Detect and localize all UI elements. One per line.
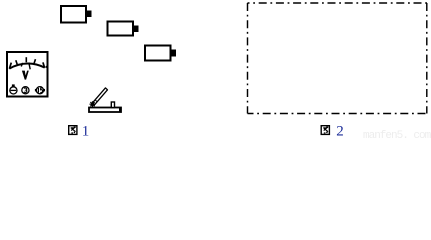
voltmeter case	[7, 52, 48, 97]
battery cell B1	[61, 6, 91, 23]
svg-text:2: 2	[336, 124, 344, 140]
knife switch S1	[89, 88, 122, 113]
terminal minus	[10, 87, 17, 94]
terminal 15 left tab	[35, 89, 36, 91]
V unit label (drawn)	[22, 71, 29, 80]
switch pivot star	[90, 101, 96, 107]
scale tick 4	[34, 59, 36, 63]
B2 positive terminal nub	[134, 26, 138, 32]
scale tick left end	[9, 63, 11, 69]
blade nib cut line	[95, 100, 97, 102]
svg-text:1: 1	[82, 124, 90, 140]
switch blade lever	[92, 88, 108, 105]
switch contact post	[111, 102, 114, 108]
switch base	[89, 108, 121, 113]
battery cell B2	[108, 22, 139, 36]
needle mark right	[29, 63, 30, 70]
dashed box right edge	[426, 3, 428, 114]
label 图 1 : hand-drawn CJK glyph	[69, 126, 77, 135]
scale tick mid	[25, 57, 27, 62]
terminal 15 digit 1 (drawn)	[37, 88, 39, 93]
switch base right cap	[119, 107, 122, 113]
dashed box top edge	[248, 2, 428, 4]
battery cell B3	[145, 46, 176, 61]
terminal 15	[36, 87, 43, 94]
terminal 3	[22, 87, 29, 94]
B3 positive terminal nub	[172, 50, 176, 56]
B1 positive terminal nub	[87, 11, 91, 17]
voltmeter V1	[7, 52, 48, 97]
terminal minus tab	[12, 85, 14, 87]
dashed box bottom edge	[248, 113, 428, 115]
scale tick right end	[43, 62, 45, 67]
terminal 3 digit (drawn)	[24, 88, 27, 92]
terminal 15 right tab	[43, 89, 44, 91]
dashed box left edge	[247, 3, 249, 114]
voltmeter scale arc	[9, 64, 44, 69]
end dot right	[46, 66, 47, 67]
dashed box (figure 2 frame)	[248, 3, 428, 114]
terminal 15 digit 5 (drawn)	[40, 88, 42, 93]
needle mark left	[21, 63, 22, 67]
label 图 2 : hand-drawn CJK glyph	[321, 126, 329, 135]
scale tick 2	[16, 60, 17, 64]
svg-text:manfen5. com: manfen5. com	[363, 130, 431, 139]
